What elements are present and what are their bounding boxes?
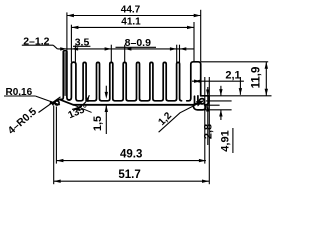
right hook top edge	[201, 96, 209, 105]
chamfer face extension line	[73, 105, 91, 113]
fin F9 thin	[168, 62, 181, 100]
svg-text:41.1: 41.1	[121, 16, 141, 27]
svg-text:44.7: 44.7	[121, 4, 141, 15]
8-0.9 underline	[116, 46, 157, 48]
right hook slot floor	[195, 103, 205, 105]
dimension 41.1	[71, 22, 194, 62]
svg-text:2–1.2: 2–1.2	[23, 35, 49, 47]
fin F8 thin	[155, 62, 168, 100]
svg-text:1,5: 1,5	[92, 116, 104, 131]
dimension 1,5	[105, 86, 107, 134]
right side extension lines	[204, 101, 232, 110]
svg-text:1,2: 1,2	[156, 110, 174, 128]
dimension 51.7	[54, 77, 210, 184]
dimension 11,9	[201, 62, 272, 96]
3.5 underline	[73, 45, 90, 47]
svg-text:4–R0.5: 4–R0.5	[6, 105, 40, 136]
fin F2 thin	[78, 62, 88, 100]
right hook foot	[193, 105, 206, 110]
right hook inner curl	[199, 99, 204, 104]
svg-text:11,9: 11,9	[250, 67, 262, 89]
2-1.2 leader underline	[22, 44, 53, 46]
dimension 44.7	[67, 10, 201, 62]
0.9 extension lines	[176, 45, 178, 63]
left lip hook curl	[55, 101, 59, 105]
fin F1a tall (1.2mm)	[63, 51, 69, 100]
base bottom edge	[73, 104, 193, 106]
dimension 2,1	[192, 77, 244, 95]
svg-text:2,1: 2,1	[225, 70, 240, 82]
svg-text:135°: 135°	[67, 103, 90, 121]
svg-text:4,91: 4,91	[219, 130, 231, 151]
dimension 4,91	[221, 86, 233, 153]
2-1.2 arrows	[60, 47, 67, 50]
fin F6 thin	[128, 62, 141, 100]
right hook inner wall	[194, 96, 196, 104]
svg-text:R0,16: R0,16	[6, 87, 33, 98]
label 1,2 with leader	[159, 101, 204, 133]
lip inner edge	[57, 99, 60, 100]
0.9 arrows	[170, 47, 177, 50]
3.5 arrows	[105, 47, 112, 50]
dimension row: 2-1.2 / 3.5 / 8-0.9	[22, 45, 194, 63]
right flange wall	[187, 62, 201, 101]
label 4-R0.5 with leader	[39, 97, 61, 113]
dimension 2,8	[207, 87, 209, 145]
right hook neck	[197, 96, 199, 103]
svg-text:8–0.9: 8–0.9	[125, 37, 151, 49]
chamfer 135 deg	[60, 100, 74, 105]
fin F4 thin	[102, 62, 115, 100]
extra extension line near fin1	[74, 45, 76, 62]
gap1 floor	[61, 97, 64, 99]
svg-text:3.5: 3.5	[75, 36, 90, 48]
fin F1b short (1.2mm)	[69, 62, 78, 101]
fin F3 thin	[88, 62, 101, 100]
svg-text:51.7: 51.7	[118, 169, 140, 181]
angle dimension 135deg	[72, 95, 89, 109]
main dim line	[57, 48, 194, 50]
fin F7 thin	[142, 62, 155, 100]
dimension 49.3	[56, 77, 206, 164]
fin F5 thin	[115, 62, 128, 100]
fin F1a center darkening	[64, 53, 66, 96]
heatsink profile outline	[55, 51, 209, 110]
3.5 extension lines	[110, 45, 112, 62]
label R0,16 with leader	[4, 96, 60, 105]
svg-text:2,8: 2,8	[202, 124, 214, 139]
svg-text:49.3: 49.3	[120, 148, 142, 160]
